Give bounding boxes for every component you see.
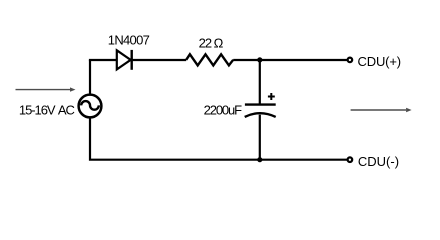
- terminal CDU(-): [348, 157, 353, 162]
- terminal CDU(+): [348, 58, 353, 63]
- resistor R1 (22 ohm): [186, 54, 233, 65]
- svg-text:2200uF: 2200uF: [204, 103, 243, 118]
- right output arrow: [351, 108, 412, 112]
- svg-text:15-16V AC: 15-16V AC: [19, 103, 75, 118]
- diode D1 (1N4007): [117, 50, 132, 70]
- wire: top rail to diode anode: [89, 59, 117, 61]
- wire: AC source top to top rail: [89, 60, 91, 94]
- wire: junction down to capacitor: [259, 60, 261, 104]
- wire: resistor to CDU(+) terminal: [233, 59, 347, 61]
- node: top junction dot: [257, 57, 262, 62]
- svg-text:CDU(+): CDU(+): [358, 54, 401, 69]
- wire: diode cathode to resistor: [132, 59, 187, 61]
- wire: capacitor to bottom rail: [259, 115, 261, 160]
- svg-text:CDU(-): CDU(-): [358, 154, 399, 169]
- AC source V1: [79, 95, 102, 118]
- capacitor C1 (2200uF, polarized): [245, 105, 276, 117]
- wire: AC source bottom to bottom rail: [90, 118, 347, 160]
- node: bottom junction dot: [257, 157, 262, 162]
- capacitor plus polarity mark: [268, 93, 275, 100]
- left input arrow: [16, 87, 76, 91]
- svg-text:1N4007: 1N4007: [108, 33, 150, 48]
- svg-text:22 Ω: 22 Ω: [199, 36, 224, 51]
